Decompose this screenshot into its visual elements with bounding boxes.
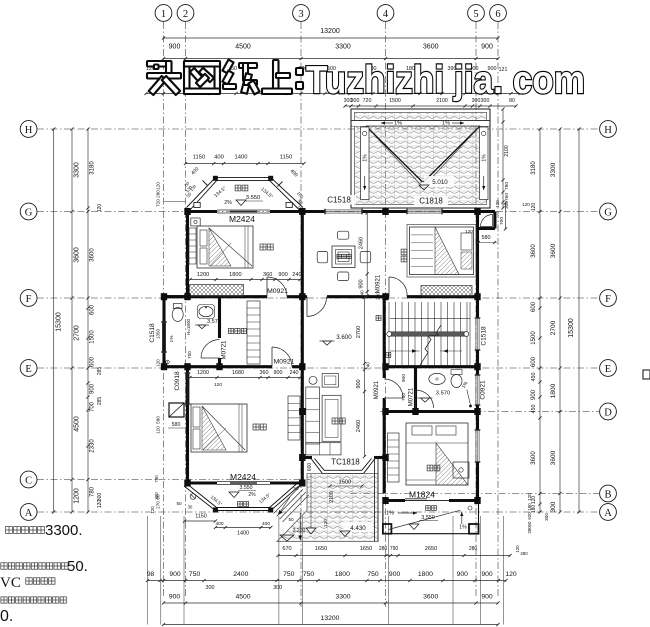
svg-text:M2424: M2424: [230, 472, 256, 482]
svg-text:1%: 1%: [442, 121, 450, 127]
right dimension sub chain: [539, 129, 541, 512]
svg-text:F: F: [26, 294, 32, 305]
svg-text:240: 240: [290, 370, 299, 376]
svg-text:120: 120: [505, 571, 517, 578]
svg-text:900: 900: [481, 571, 493, 578]
right dimension 15300: [578, 129, 580, 512]
svg-text:900: 900: [169, 44, 181, 51]
svg-text:400: 400: [215, 521, 223, 527]
svg-text:M0921: M0921: [374, 380, 380, 399]
svg-text:450: 450: [531, 405, 537, 414]
svg-text:360: 360: [263, 272, 272, 278]
svg-text:900: 900: [389, 571, 401, 578]
svg-text:A: A: [25, 508, 33, 519]
svg-text:4500: 4500: [235, 44, 251, 51]
wall E left: [164, 365, 272, 368]
svg-text:3600: 3600: [531, 451, 537, 465]
svg-text:1200: 1200: [197, 370, 209, 376]
axis line 3: [300, 22, 302, 607]
wall F center with door: [302, 295, 307, 298]
terrace arrow down: [306, 528, 316, 534]
axis line 4: [385, 22, 387, 607]
door M2424 top bay sliding: [217, 209, 270, 211]
svg-text:780: 780: [504, 182, 510, 190]
axis line 5: [475, 22, 477, 598]
stairs break line: [420, 325, 441, 365]
grid bubble 4: [377, 5, 394, 22]
axis line 1: [163, 22, 165, 598]
svg-text:120: 120: [214, 382, 222, 388]
label C1518 G wall: [322, 195, 356, 205]
svg-text:280: 280: [520, 551, 528, 556]
wall E dim row: [190, 377, 300, 379]
svg-text:600: 600: [531, 356, 537, 367]
svg-text:3300: 3300: [335, 44, 351, 51]
wall F right: [384, 295, 389, 298]
bottom mini dimension row: [278, 555, 510, 557]
svg-text:3180: 3180: [531, 161, 537, 175]
roof terrace outline: [351, 109, 490, 208]
svg-text:300: 300: [550, 501, 557, 512]
bottom dimension row 2: [164, 602, 499, 604]
balcony bottom right outline: [383, 504, 479, 534]
svg-text:F: F: [605, 294, 611, 305]
svg-text:G: G: [25, 207, 33, 218]
grid bubble E right: [600, 360, 617, 377]
svg-text:3300: 3300: [335, 594, 350, 601]
svg-text:400: 400: [262, 521, 270, 527]
svg-text:2460: 2460: [356, 420, 362, 432]
svg-text:C: C: [25, 475, 32, 486]
terrace tile field bottom: [277, 474, 378, 542]
balcony label top bay: [235, 185, 241, 191]
svg-text:300: 300: [273, 585, 282, 591]
svg-text:900: 900: [90, 383, 96, 394]
grid bubble 5: [468, 5, 485, 22]
svg-text:1800: 1800: [335, 571, 350, 578]
svg-text:900: 900: [531, 389, 537, 400]
svg-text:400: 400: [214, 155, 224, 161]
svg-text:3.570: 3.570: [207, 319, 221, 325]
svg-text:670: 670: [282, 546, 291, 552]
svg-text:C1518: C1518: [149, 323, 156, 343]
grid bubble 1: [155, 5, 172, 22]
door M0721 bathroom1: [218, 297, 221, 338]
svg-text:780: 780: [90, 486, 96, 497]
stairs walk line upper: [390, 317, 470, 319]
bedside table master right: [453, 462, 469, 478]
svg-text:2700: 2700: [74, 325, 81, 341]
svg-text:6: 6: [495, 9, 500, 20]
svg-text:2700: 2700: [550, 320, 557, 335]
window C1818 wall G: [407, 209, 442, 211]
wall F left: [164, 295, 267, 298]
grid bubble G right: [600, 203, 617, 220]
roof parapet left strip: [361, 127, 370, 200]
stairs upper flight treads: [388, 302, 390, 332]
bottom dimension row 3 13200: [164, 624, 499, 626]
structural column blocks: [184, 208, 190, 215]
svg-text:3.220: 3.220: [293, 528, 306, 534]
svg-text:H=1800: H=1800: [186, 318, 191, 335]
left outer wall master bedroom: [186, 367, 189, 481]
cloakroom wardrobe: [247, 301, 260, 364]
axis line B: [350, 493, 599, 495]
grid bubble F left: [20, 290, 37, 307]
svg-text:50: 50: [288, 517, 294, 522]
window C1518 bathroom left wall: [161, 322, 163, 352]
bottom dimension row 1: [148, 580, 507, 582]
bed master right: [406, 423, 468, 485]
svg-text:3600: 3600: [550, 450, 557, 465]
left outer wall bathroom jog: [164, 295, 189, 298]
terrace tile grid: [314, 474, 316, 542]
watermark chinese characters: [147, 60, 303, 95]
hall coffee table: [322, 395, 341, 441]
svg-text:TC1818: TC1818: [331, 458, 360, 467]
svg-text:450: 450: [531, 373, 537, 382]
svg-text:C1518: C1518: [327, 196, 351, 205]
bathroom2 drain line: [467, 390, 471, 406]
svg-text:3.550: 3.550: [240, 485, 253, 491]
grid bubble A right: [600, 504, 617, 521]
bedroom1 label: [260, 244, 266, 250]
svg-text:M0921: M0921: [376, 274, 382, 293]
top dimension chain 900-4500-3300-3600-900: [164, 58, 499, 60]
svg-text:3300: 3300: [74, 162, 81, 178]
roof ridge band: [351, 120, 490, 122]
svg-text:4500: 4500: [235, 594, 250, 601]
axis line 2: [185, 22, 187, 598]
svg-text:3600: 3600: [423, 594, 438, 601]
svg-text:D: D: [604, 407, 612, 418]
svg-text:600: 600: [90, 304, 96, 315]
svg-text:2%: 2%: [248, 492, 256, 498]
svg-text:C0918: C0918: [174, 371, 181, 391]
door M0721 bathroom2: [415, 390, 417, 408]
svg-text:4: 4: [383, 9, 389, 20]
left dimension sub chain: [87, 129, 89, 512]
svg-text:300: 300: [154, 492, 159, 500]
svg-text:360: 360: [260, 370, 269, 376]
svg-text:2: 2: [183, 9, 188, 20]
grid3 wall mid and lower: [301, 297, 304, 458]
stairs landing line: [469, 302, 471, 365]
grid bubble F right: [600, 290, 617, 307]
svg-text:50: 50: [176, 501, 182, 506]
closet top right walls: [479, 210, 495, 213]
window bedroom4 right wall: [475, 430, 477, 462]
svg-text:750: 750: [189, 571, 201, 578]
roof tile field: [355, 113, 486, 204]
svg-text:2%: 2%: [224, 200, 232, 206]
right outer wall mid: [476, 350, 479, 375]
svg-text:900: 900: [481, 44, 493, 51]
bay bottom corner posts: [213, 508, 218, 513]
svg-text:13200: 13200: [320, 28, 340, 35]
svg-text:180: 180: [527, 503, 532, 511]
svg-text:780: 780: [154, 475, 159, 483]
label C1818 G wall: [414, 196, 448, 206]
svg-text:2650: 2650: [425, 546, 437, 552]
flue niche left wall: [169, 403, 184, 417]
right outer wall lower: [476, 405, 479, 430]
balcony diagonal drain line: [388, 510, 460, 529]
svg-text:30: 30: [188, 505, 193, 510]
bathroom1 toilet: [173, 304, 182, 309]
svg-text:240: 240: [360, 290, 365, 298]
closet door arc: [481, 215, 493, 227]
door M0921 bedroom1 wall F: [266, 277, 268, 297]
svg-text:3600: 3600: [423, 44, 439, 51]
svg-text:720: 720: [156, 199, 161, 207]
svg-text:285: 285: [97, 397, 103, 406]
svg-text:3.550: 3.550: [246, 195, 261, 201]
svg-text:120: 120: [323, 519, 329, 527]
axis line 6: [497, 22, 499, 598]
wall D: [384, 410, 478, 413]
bottom extension lines: [147, 516, 149, 625]
wall G front left section: [186, 210, 217, 213]
note line 1 third floor height: [6, 527, 13, 534]
radiator band bedroom1: [190, 285, 244, 297]
svg-text:15300: 15300: [56, 312, 63, 332]
svg-text:1%: 1%: [394, 121, 402, 127]
hall sofa back: [306, 387, 320, 444]
svg-text:1350: 1350: [156, 328, 161, 339]
wall G right section: [386, 210, 408, 213]
roof tile grid lines: [367, 113, 369, 204]
svg-text:50.: 50.: [67, 558, 88, 575]
svg-text:1%: 1%: [482, 154, 488, 162]
external steps beside bay: [274, 486, 309, 522]
stairs direction labels: [376, 316, 381, 321]
svg-text:900: 900: [481, 594, 493, 601]
svg-text:1150: 1150: [193, 155, 205, 161]
bay top corner posts: [213, 176, 218, 181]
cloakroom label: [228, 328, 233, 333]
svg-text:900: 900: [356, 379, 362, 388]
axis line H: [37, 128, 599, 130]
svg-text:0.: 0.: [0, 608, 13, 625]
svg-text:M1824: M1824: [409, 490, 435, 500]
svg-text:5: 5: [473, 9, 478, 20]
grid bubble 6: [490, 5, 507, 22]
bathroom1 rain drain dot: [166, 360, 170, 364]
svg-text:1%: 1%: [363, 154, 369, 162]
roof level 5.010: [424, 176, 454, 187]
svg-text:280: 280: [156, 190, 161, 198]
svg-text:50: 50: [294, 486, 299, 491]
svg-text:98: 98: [147, 571, 155, 578]
svg-text:1%: 1%: [386, 511, 394, 517]
svg-text:M0921: M0921: [267, 288, 288, 295]
bay window top outline: [187, 178, 304, 211]
svg-text:900: 900: [278, 272, 287, 278]
door M2424 bottom bay sliding: [217, 481, 270, 483]
svg-text:C1818: C1818: [419, 197, 443, 206]
svg-text:1500: 1500: [90, 330, 96, 344]
bedside table bedroom1: [191, 218, 200, 226]
svg-text:13200: 13200: [321, 615, 340, 622]
stairs lower flight treads: [388, 336, 390, 365]
svg-text:1680: 1680: [232, 370, 244, 376]
svg-text:120: 120: [527, 493, 532, 501]
svg-text:580: 580: [156, 416, 161, 424]
svg-text:900: 900: [401, 374, 407, 382]
svg-text:1200: 1200: [74, 488, 81, 504]
svg-text:E: E: [25, 364, 31, 375]
svg-text:900: 900: [457, 571, 469, 578]
steps direction arrow: [278, 497, 290, 515]
svg-text:1400: 1400: [237, 531, 249, 537]
left extension line at bay corner: [164, 201, 186, 203]
svg-text:1%: 1%: [169, 335, 175, 343]
bay window bottom outline: [184, 484, 299, 511]
balcony corner stubs: [383, 524, 392, 534]
svg-text:700: 700: [499, 217, 505, 225]
svg-text:B: B: [604, 489, 611, 500]
svg-text:120: 120: [156, 359, 161, 367]
svg-text:285: 285: [97, 367, 103, 376]
bathroom1 sink: [198, 305, 215, 319]
bed bedroom2: [410, 227, 474, 275]
svg-text:M0721: M0721: [409, 387, 415, 406]
top dimension 13200: [164, 37, 499, 39]
window C1518 wall G: [325, 209, 362, 211]
bottom bay dims: [185, 520, 216, 522]
hall label: [332, 418, 338, 424]
steps level line: [299, 513, 301, 540]
grid4 wall stair left: [383, 297, 386, 378]
game room label in table: [337, 254, 341, 258]
grid bubble 3: [293, 5, 310, 22]
svg-text:3600: 3600: [90, 248, 96, 262]
svg-text:3300: 3300: [550, 162, 557, 177]
wall G center with window: [301, 210, 325, 213]
svg-text:240: 240: [376, 292, 381, 300]
grid bubble B right: [600, 485, 617, 502]
left dimension 15300: [53, 129, 55, 512]
bedroom1 dim row: [190, 279, 300, 281]
svg-text:3600: 3600: [74, 247, 81, 263]
svg-text:C0921: C0921: [480, 380, 487, 400]
steps big triangle: [280, 535, 294, 541]
svg-text:300: 300: [206, 585, 215, 591]
right dimension chain 3300-3600-2700-1800-3600-300: [559, 129, 561, 512]
svg-text:H: H: [25, 125, 33, 136]
window C0918 left wall: [185, 373, 187, 404]
svg-text:120: 120: [150, 506, 155, 514]
svg-text:900: 900: [359, 279, 365, 288]
svg-text:1%: 1%: [459, 525, 467, 531]
bed bedroom1: [197, 226, 253, 268]
svg-text:1800: 1800: [229, 272, 241, 278]
svg-text:1800: 1800: [550, 383, 557, 398]
svg-text:H: H: [604, 125, 612, 136]
svg-text:2400: 2400: [233, 571, 248, 578]
door M092 hall east: [384, 397, 403, 399]
svg-text:C1518: C1518: [481, 326, 488, 346]
svg-text:790: 790: [390, 546, 399, 552]
svg-text:300: 300: [544, 513, 549, 521]
closet right dim 700: [504, 203, 506, 229]
svg-text:1500: 1500: [339, 480, 351, 486]
svg-text:1150: 1150: [280, 155, 292, 161]
svg-text:600: 600: [531, 301, 537, 312]
bay dimension row 1150-400-1400-1150: [186, 163, 305, 165]
svg-text:240: 240: [366, 362, 371, 370]
svg-text:2100: 2100: [504, 145, 510, 157]
master bedroom left wardrobe: [288, 396, 300, 440]
axis line E: [37, 367, 599, 369]
bay slant base posts: [194, 202, 200, 207]
bathroom2 divider wall: [414, 367, 417, 412]
svg-text:1400: 1400: [235, 155, 248, 161]
terrace level 4.430: [343, 522, 373, 532]
note line 2 floor lower 50: [1, 563, 7, 569]
axis line G: [37, 211, 599, 213]
bedroom1 headboard shelf: [189, 228, 196, 264]
svg-text:M2424: M2424: [229, 214, 255, 224]
svg-text:2100: 2100: [329, 491, 335, 503]
grid bubble H left: [20, 121, 37, 138]
svg-text:580: 580: [482, 235, 491, 241]
svg-text:120: 120: [465, 229, 473, 235]
svg-text:G: G: [604, 207, 612, 218]
svg-text:1500: 1500: [531, 331, 537, 345]
svg-text:120: 120: [156, 182, 161, 190]
grid3 wall upper: [301, 212, 304, 297]
bed master left: [191, 404, 247, 452]
svg-text:280: 280: [527, 526, 532, 534]
right outer wall upper: [476, 210, 479, 318]
svg-text:120: 120: [522, 202, 530, 207]
master left label: [253, 424, 259, 430]
svg-text:15300: 15300: [568, 318, 575, 338]
svg-text:VC: VC: [0, 575, 21, 591]
master bedroom right wardrobe: [388, 433, 400, 482]
svg-text:E: E: [605, 364, 611, 375]
stairs walk line lower with arrows: [390, 350, 420, 352]
svg-text:120: 120: [156, 426, 161, 434]
svg-text:4.430: 4.430: [350, 525, 366, 532]
svg-text:900: 900: [274, 370, 283, 376]
svg-text:240: 240: [292, 272, 301, 278]
svg-text:3.570: 3.570: [436, 391, 451, 397]
svg-text:1: 1: [161, 9, 166, 20]
svg-text:5.010: 5.010: [432, 179, 448, 186]
svg-text:700: 700: [401, 393, 407, 401]
roof valley V lines: [366, 126, 423, 182]
axis line A: [37, 511, 599, 513]
svg-text:4500: 4500: [74, 416, 81, 432]
grid bubble A left: [20, 504, 37, 521]
svg-text:2330: 2330: [90, 439, 96, 453]
game table: [332, 246, 355, 268]
grid bubble 2: [177, 5, 194, 22]
axis line C: [37, 479, 310, 481]
svg-text:M0921: M0921: [274, 359, 295, 366]
svg-text:900: 900: [169, 571, 181, 578]
hall dims vertical line: [364, 298, 366, 457]
axis line F: [37, 297, 599, 299]
svg-text:1800: 1800: [418, 571, 433, 578]
svg-text:750: 750: [367, 571, 379, 578]
terrace right border double: [374, 458, 376, 542]
door M0921 cloak wall E: [271, 347, 273, 367]
roof right dimension chain: [502, 109, 504, 208]
